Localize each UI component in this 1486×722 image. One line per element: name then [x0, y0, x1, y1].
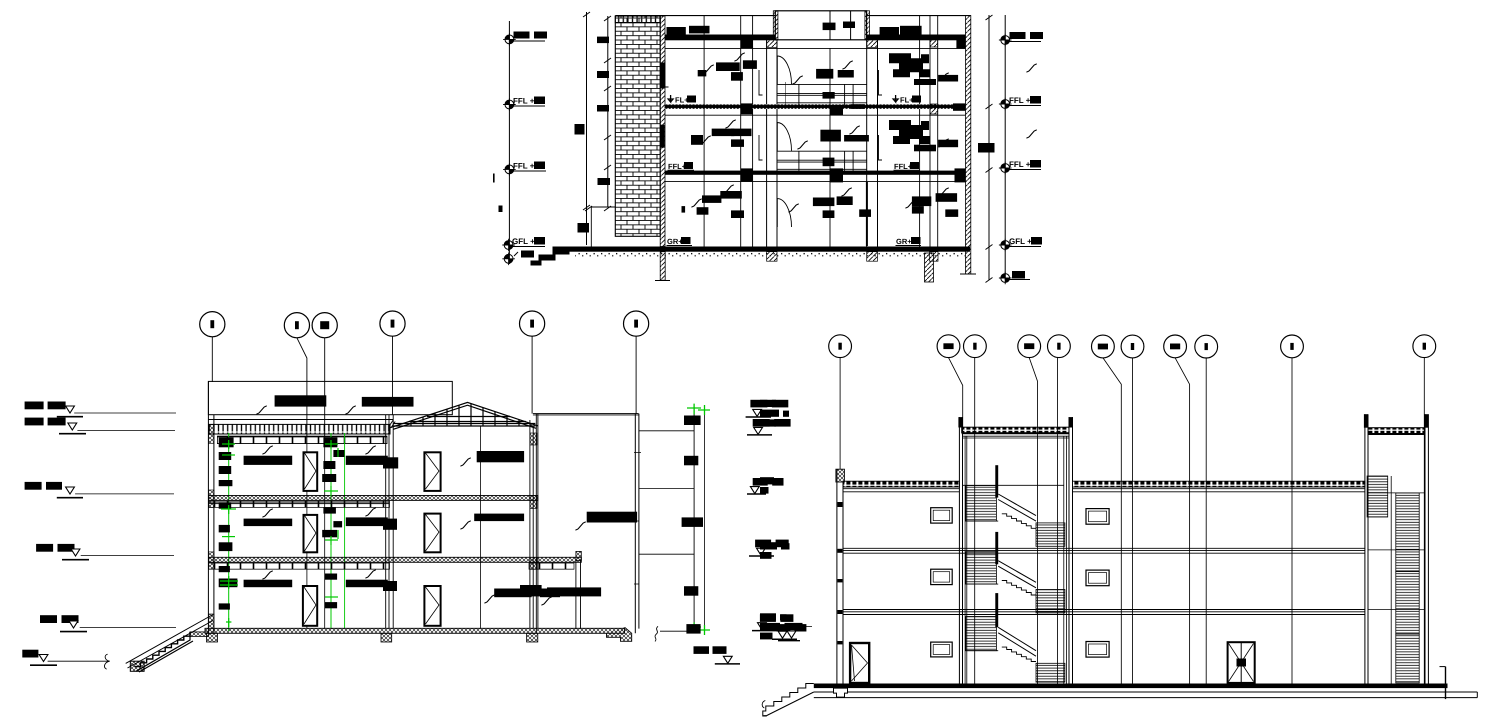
interior grid line C down [324, 436, 326, 628]
balustrade floor2 black blob [823, 92, 835, 99]
level target roof right [999, 34, 1012, 47]
roof text right [880, 27, 899, 35]
2F right room label cluster [889, 53, 930, 77]
grid stem F [635, 336, 637, 414]
door B 2F [424, 514, 440, 553]
door arc floor1 [777, 123, 791, 151]
left label row3 [760, 542, 777, 549]
tower1 inner right wall [1064, 436, 1067, 683]
3F labels room1 [244, 456, 293, 465]
sidewalk right end post [1445, 667, 1447, 700]
entrance stair steps [135, 632, 190, 667]
brick wall top course [615, 16, 660, 23]
partition under gable [479, 426, 481, 628]
column C1 [740, 16, 742, 247]
window L GF [931, 642, 953, 657]
left label row4 cluster [760, 613, 776, 620]
column C2 [929, 16, 931, 247]
2F corridor labels [816, 69, 833, 79]
1F corridor labels [820, 130, 841, 142]
roof soffit lines left [843, 489, 959, 492]
svg-text:GFL +: GFL + [1009, 237, 1032, 246]
roof slab left checker band [843, 481, 959, 487]
right datum column lines [693, 407, 695, 631]
below-ground marker [694, 646, 710, 654]
GF labels room2 [346, 580, 388, 588]
door left GF [850, 643, 869, 683]
storey2 newel [995, 532, 998, 564]
right marker c [753, 478, 768, 486]
window sill lines mid [759, 70, 763, 95]
left wall ticks [837, 502, 842, 507]
svg-text:FFL+: FFL+ [894, 162, 913, 171]
svg-text:FFL +: FFL + [513, 97, 535, 106]
tower1 outer right wall [1069, 417, 1073, 683]
corridor right wall [866, 40, 868, 247]
tower2 ladder A [1367, 476, 1388, 517]
curved leader hook [104, 654, 109, 669]
top parapet outline box [208, 381, 452, 414]
tower2 floor crossing lines [1368, 493, 1425, 610]
tower2 outer left wall [1365, 414, 1368, 683]
bulkhead left wall [773, 11, 778, 40]
bubbles row [829, 335, 1436, 358]
right marker b [753, 419, 770, 427]
svg-text:FFL+: FFL+ [668, 162, 687, 171]
level target basement right [999, 272, 1012, 285]
dim B tie line [591, 206, 616, 208]
left marker 5 [40, 615, 57, 623]
left wall parapet hatch [836, 469, 845, 482]
slab patch black right corner roof [956, 40, 965, 49]
interior grid line at door1 [306, 436, 308, 628]
grid leaders slanted [949, 358, 1190, 684]
parapet coping line [208, 419, 393, 421]
floor 2 soffit line [665, 114, 966, 116]
storey1 newel [995, 465, 998, 497]
GF corridor labels [813, 198, 835, 207]
floor 3 lines [843, 610, 1365, 615]
foundation below col C2 [925, 253, 934, 282]
door B GF [424, 586, 440, 626]
storey2 ladder flight [966, 552, 997, 584]
2F FL label left [668, 95, 673, 102]
storey3 sloped rails [998, 627, 1036, 656]
left marker 4 [36, 544, 53, 552]
window frame bar lower [660, 125, 665, 148]
window L 3F [931, 508, 953, 523]
right extension line 2F [639, 488, 694, 490]
column G1 annotation blobs [219, 437, 234, 447]
stair stringer [136, 632, 193, 672]
gable eave hatch left [389, 420, 395, 428]
grid stem C [324, 338, 326, 436]
stray tick mark far left [493, 174, 495, 183]
roof label right [1010, 32, 1026, 39]
basement label right [1012, 271, 1025, 279]
ground line to datum [660, 630, 694, 632]
svg-text:FFL +: FFL + [1009, 160, 1031, 169]
tower2 ladder B1 [1396, 493, 1419, 572]
storey1 ladder flight [966, 486, 997, 522]
floor 1 slab black [665, 171, 966, 175]
roof slab right checker band [1073, 481, 1365, 487]
partition line right room [919, 16, 921, 247]
entry steps bottom-left [763, 684, 814, 717]
steps underside slope [763, 692, 814, 716]
door A 2F [304, 515, 318, 552]
floor 2 patch door [830, 105, 843, 115]
right dimension line [988, 15, 990, 280]
tower2 stringer line [1390, 476, 1392, 684]
brick chimney wall [615, 16, 660, 236]
GF labels room3 [494, 589, 531, 598]
foundation pier left [834, 688, 848, 697]
2F wing label [587, 512, 637, 523]
grid stems straight [840, 358, 1424, 684]
right extension line 1F [639, 553, 694, 555]
left exterior wall [208, 381, 214, 633]
floor 2 patch right end black [953, 103, 966, 110]
balcony joist part [529, 563, 574, 569]
ground slab black [570, 247, 971, 252]
slab patch hatch colR roof [930, 40, 938, 47]
tower1 roof landing line [963, 484, 1064, 486]
balustrade floor1 [777, 151, 867, 170]
right marker d [755, 540, 771, 548]
storey2 sloped rails [998, 561, 1036, 588]
left marker 2 [25, 418, 44, 426]
window sill lines left rooms [665, 61, 669, 87]
break squiggle [655, 626, 658, 641]
storey2 right ladder [1036, 590, 1065, 613]
tower1 inner left wall [965, 436, 967, 683]
grid stem E [531, 336, 533, 413]
2F labels room2 [346, 517, 388, 526]
svg-text:FFL +: FFL + [1009, 96, 1031, 105]
grid bubble F [624, 311, 649, 336]
window L 2F [931, 569, 953, 584]
floor 1 soffit line [665, 180, 966, 182]
storey1 sloped rails [998, 494, 1036, 521]
balcony support wall [576, 560, 581, 628]
roof text left [667, 27, 686, 35]
tower2 ladder B3 [1396, 634, 1419, 683]
svg-text:FFL +: FFL + [513, 162, 535, 171]
stray small block [499, 206, 503, 213]
column G1 green crosses [220, 440, 238, 627]
floor3 slab crosshatch [209, 557, 582, 562]
roof ceiling line [665, 47, 966, 49]
parapet box label 2 [362, 397, 414, 407]
parapet box label 1 [275, 395, 327, 406]
left level datum line [508, 21, 510, 264]
roof slab right black band [867, 35, 966, 41]
right marker e1 [760, 614, 776, 622]
3F labels room2 [346, 456, 388, 465]
floor 2 patch blob right of door [851, 104, 865, 109]
right dim text [978, 143, 995, 153]
right exterior wall hatched [966, 16, 971, 274]
ground floor heavy door line [866, 182, 868, 246]
left marker 3 [25, 482, 42, 490]
window frame bar upper [660, 63, 665, 89]
main right wall hatch [530, 433, 537, 445]
tower1 coping band [962, 427, 1069, 433]
door A 3F [304, 452, 318, 491]
storey3 landing line [966, 650, 998, 652]
storey1 right ladder [1036, 523, 1065, 546]
main right wall (gable side) [530, 414, 538, 633]
storey3 ladder flight [966, 617, 997, 651]
2F room labels left [698, 70, 707, 76]
storey3 right ladder [1036, 663, 1065, 682]
wing right wall [635, 414, 639, 634]
railing edge lines floor2 [784, 82, 786, 105]
grid stem B leader [297, 338, 307, 436]
roof slab left black band [665, 35, 776, 41]
level target 1F left [503, 163, 516, 176]
storey3 steps [1002, 647, 1036, 661]
corridor left wall [766, 40, 768, 247]
grid bubble C [312, 313, 337, 338]
balustrade floor2 [777, 84, 867, 105]
svg-text:GR+: GR+ [896, 237, 912, 246]
level target GF right [999, 239, 1012, 252]
ground level small label [521, 251, 534, 258]
floor2 joist band [209, 501, 390, 507]
floor 1 patch door [830, 168, 843, 182]
footing F [527, 633, 538, 642]
hatched wall strip right of brick [660, 16, 665, 247]
stair handrail [126, 615, 213, 669]
GF labels room1 [244, 580, 293, 588]
2F FL label right [893, 95, 898, 102]
grid bubble A [200, 312, 225, 337]
tower2 coping band [1368, 428, 1425, 434]
green column G2 [330, 433, 332, 628]
left exterior wall [837, 469, 843, 683]
slab patch hatch corridorR roof [867, 40, 878, 48]
grid stem A [211, 337, 213, 382]
1F right room label cluster [889, 120, 930, 144]
floor 1 patch col1 [741, 168, 753, 182]
roof joist band [217, 436, 387, 444]
dimension line A [586, 12, 588, 245]
tower2 parapet posts [1364, 414, 1368, 428]
roof level label left [514, 32, 530, 39]
2F labels room1 [244, 519, 293, 527]
GF room labels left [702, 195, 721, 203]
sidewalk band [814, 692, 1478, 698]
floor 2 lines [843, 548, 1365, 553]
floor3 joist band [209, 563, 390, 569]
ground stipple band [575, 252, 966, 257]
right marker e2 [776, 624, 790, 631]
grid stem D [392, 336, 394, 415]
floor 2 dotted slab [665, 104, 966, 108]
roof slab hatched band [209, 424, 390, 434]
roof soffit lines right [1073, 489, 1365, 492]
storey1 landing line [966, 520, 998, 522]
storey3 newel [995, 593, 998, 627]
ground slab heavy [814, 684, 1448, 689]
slab patch black col1 roof [741, 40, 753, 49]
bulkhead mullions [829, 11, 831, 40]
storey1 steps [1002, 514, 1036, 529]
tower1 outer left wall [959, 417, 962, 683]
foundation right wall tail [960, 273, 976, 275]
door arc GF [777, 199, 791, 227]
dim text A upper [575, 124, 585, 135]
left marker 6 (ground) [22, 650, 38, 658]
balcony upstand [576, 551, 581, 560]
grid bubble D [380, 311, 405, 336]
dimension line B [607, 16, 609, 207]
dim text A lower [578, 223, 590, 233]
left label row2 [760, 477, 774, 484]
right marker a [750, 400, 767, 408]
level target 1F right [999, 162, 1012, 175]
slab patch hatch corridorL roof [767, 40, 777, 48]
window R 2F [1086, 570, 1109, 586]
tower2 outer right wall [1425, 414, 1428, 683]
wing parapet top double line [533, 414, 639, 415]
footing A [207, 633, 218, 642]
gable truss [391, 402, 539, 429]
left wall hatch patches [208, 424, 214, 443]
ground slab curb right [607, 627, 632, 641]
floor 2 patch colR hatch [930, 104, 938, 114]
1F room labels left [691, 135, 703, 145]
datum blobs [684, 416, 701, 426]
window R GF [1086, 642, 1109, 658]
column G2 annotation blobs [323, 437, 337, 447]
corridor wall D [386, 415, 394, 629]
left marker 1 [25, 402, 44, 410]
storey2 landing line [966, 583, 998, 585]
GF right room labels [912, 196, 931, 206]
ground slab crosshatch [205, 628, 625, 633]
door B 3F [424, 452, 440, 491]
steps left hook [762, 701, 765, 709]
level target 2F right [999, 98, 1012, 111]
floor2 slab crosshatch [209, 496, 538, 501]
foundation hatch corridorL [767, 252, 777, 262]
datum green cross top [687, 404, 710, 415]
svg-text:GR+: GR+ [667, 237, 683, 246]
foundation below brick wall [660, 252, 665, 281]
left label row1 [760, 400, 776, 407]
dim stub line [590, 207, 592, 247]
storey2 steps [1002, 581, 1036, 596]
bubble ticks [838, 343, 1426, 350]
green column G1 [228, 433, 230, 631]
3F labels room3 [477, 451, 524, 462]
bulkhead right wall [865, 11, 870, 40]
partition line left room [703, 16, 705, 247]
column G2 green crosses [324, 440, 338, 597]
door arc floor2 [777, 56, 791, 84]
landing at wall [190, 632, 208, 637]
stair base footing [130, 661, 144, 671]
level target 2F left [503, 98, 516, 111]
level target GF left [502, 239, 515, 252]
2F labels room3 [474, 514, 524, 522]
window R 3F [1086, 509, 1109, 525]
floor 1 patch right end [955, 168, 966, 182]
foundation hatch corridorR [867, 252, 878, 262]
grid bubble E [520, 311, 545, 336]
stair bulkhead on roof [775, 11, 866, 40]
tower2 ladder B2 [1396, 572, 1419, 634]
door right double GF [1228, 642, 1255, 683]
right extension line 3F [639, 430, 694, 432]
svg-text:GFL +: GFL + [512, 237, 535, 246]
bulkhead labels [823, 23, 836, 31]
GF wing label [520, 585, 542, 596]
right level datum line [1004, 15, 1006, 280]
grid bubble B [284, 313, 309, 338]
datum green cross bottom [687, 622, 710, 635]
tower1 parapet posts [958, 417, 962, 427]
level target ground left [502, 252, 515, 265]
floor 2 patch col1 [741, 103, 753, 114]
footing D [381, 633, 392, 642]
balustrade floor1 black blob [823, 158, 835, 167]
wing right wall ticks [634, 452, 641, 584]
door A GF [303, 586, 317, 626]
level target roof left [503, 33, 516, 46]
corridor door jamb line [829, 48, 831, 246]
parapet top line [615, 15, 971, 17]
tower1 head line [963, 436, 1070, 438]
foundation hatch colR [930, 252, 939, 262]
dim B text blobs [597, 37, 609, 44]
entry steps left [531, 247, 570, 266]
window sill right room [879, 70, 883, 95]
